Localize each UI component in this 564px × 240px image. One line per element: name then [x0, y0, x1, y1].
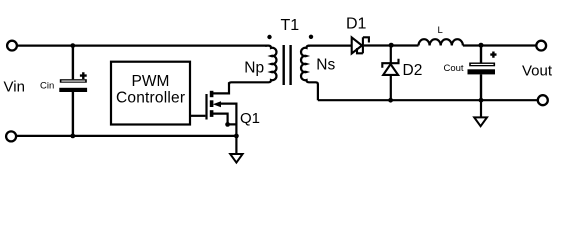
terminal Vin- — [6, 131, 16, 141]
node D1 cathode junction — [389, 43, 394, 48]
svg-text:Vin: Vin — [4, 78, 25, 95]
transformer T1 secondary winding Ns — [301, 46, 318, 101]
transformer T1 primary winding Np — [229, 46, 276, 85]
terminal Vout- — [538, 95, 548, 105]
wire node to inductor — [391, 44, 419, 46]
diode D1 schottky — [352, 37, 369, 53]
capacitor C2 Cout — [468, 46, 497, 101]
node Cin top junction — [70, 43, 75, 48]
wire D1 cathode to node — [364, 44, 392, 46]
phase dot secondary — [309, 35, 313, 39]
svg-text:Vout: Vout — [522, 63, 553, 80]
wire bottom input rail — [16, 135, 236, 137]
node D2 anode junction — [388, 98, 393, 103]
terminal Vout+ — [536, 41, 546, 51]
svg-text:Cin: Cin — [40, 80, 54, 91]
PWM controller U1 — [111, 62, 190, 125]
ground output — [474, 100, 487, 126]
wire top input rail — [17, 44, 267, 46]
svg-text:L: L — [438, 25, 443, 36]
node Cout bottom junction — [479, 98, 484, 103]
inductor L1 — [419, 39, 463, 45]
node Cin bottom junction — [70, 134, 75, 139]
phase dot primary — [267, 35, 271, 39]
svg-text:D1: D1 — [346, 15, 367, 32]
capacitor C1 Cin — [59, 46, 87, 136]
transistor Q1 (N-MOSFET) — [207, 82, 237, 136]
svg-text:Controller: Controller — [116, 89, 185, 106]
ground input — [230, 136, 242, 163]
svg-text:D2: D2 — [403, 62, 423, 79]
svg-text:Q1: Q1 — [240, 110, 260, 127]
svg-text:T1: T1 — [281, 17, 300, 34]
wire gate — [190, 115, 206, 117]
transformer core — [284, 45, 291, 85]
svg-text:Np: Np — [244, 59, 264, 76]
diode D2 schottky freewheeling — [382, 46, 398, 101]
svg-text:Cout: Cout — [444, 63, 464, 74]
wire Ns to D1 anode — [308, 44, 352, 46]
svg-text:Ns: Ns — [316, 57, 335, 74]
wire output bottom rail — [318, 99, 538, 101]
node Cout top junction — [479, 43, 484, 48]
wire inductor to Cout node — [463, 44, 481, 46]
node Q1 source junction — [234, 134, 239, 139]
svg-text:PWM: PWM — [132, 73, 170, 90]
terminal Vin+ — [7, 41, 17, 51]
wire node to Vout+ — [481, 44, 536, 46]
